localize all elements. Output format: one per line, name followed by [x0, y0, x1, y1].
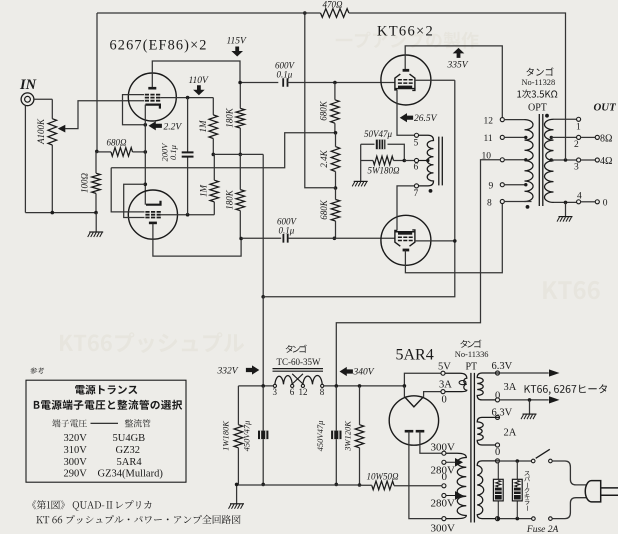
resistor 1M upper	[209, 115, 218, 139]
svg-text:5AR4: 5AR4	[117, 457, 143, 468]
label 280V bottom	[431, 498, 456, 510]
junction dot V4 screen	[453, 239, 457, 243]
tube V5 plate left	[405, 430, 414, 433]
svg-text:8: 8	[320, 387, 325, 397]
label No-11336	[455, 350, 489, 359]
winding 6.3V first	[477, 373, 499, 400]
wire 180K upper bottom lead	[239, 128, 241, 154]
resistor 10W50ohm	[372, 481, 394, 490]
label pin 6	[414, 163, 419, 173]
terminal choke 8	[321, 384, 324, 387]
junction dot 100 ohm-ground bus	[94, 211, 98, 215]
svg-text:1: 1	[576, 122, 581, 132]
caption line 2	[36, 515, 240, 524]
wire divider tap to V2 grid	[111, 133, 336, 168]
label 8 ohm	[600, 133, 612, 144]
wire filament left leg	[403, 386, 405, 397]
wire heater top	[499, 372, 549, 374]
label 332V	[217, 367, 239, 377]
pot wiper arrow	[58, 125, 66, 133]
junction dot bias-pin6	[403, 159, 407, 163]
wire coupling cap vertical	[187, 98, 189, 215]
wire pin4 to 0	[580, 201, 595, 203]
tube V1 plate	[148, 87, 156, 90]
svg-text:180K: 180K	[225, 107, 235, 128]
svg-text:12: 12	[299, 387, 308, 397]
resistor 2.4K	[331, 147, 340, 172]
label pin 12	[484, 117, 494, 127]
OPT secondary coil	[545, 119, 554, 202]
info table box	[26, 380, 186, 482]
junction dot V1 plate node	[238, 81, 242, 85]
wire pin2 to 8ohm	[580, 136, 595, 138]
svg-text:0.1μ: 0.1μ	[279, 226, 295, 236]
wire cathode vertical V1-V2	[144, 105, 146, 205]
junction dot secondary tap2	[550, 136, 553, 139]
decorative bleed-through (not labelled further)	[60, 32, 600, 353]
label 0 HV	[442, 471, 448, 483]
svg-text:5AR4: 5AR4	[396, 347, 434, 364]
label IN	[19, 77, 37, 93]
wire V3 plate to OPT pin12	[405, 46, 502, 118]
terminal OPT pin3	[577, 158, 581, 162]
svg-text:TC-60-35W: TC-60-35W	[277, 357, 321, 367]
junction dot heater ground	[528, 398, 532, 402]
svg-text:332V: 332V	[217, 367, 239, 377]
cathode winding coil	[418, 135, 433, 186]
junction dot spark killer 2 bottom	[516, 517, 520, 521]
label 100 ohm	[80, 173, 90, 194]
svg-text:3: 3	[574, 163, 579, 173]
cathode winding polarity dot	[429, 189, 433, 193]
svg-text:8Ω: 8Ω	[600, 133, 612, 144]
resistor 180K lower	[236, 190, 245, 211]
label 600V 0.1u lower	[277, 217, 298, 236]
wire screen node to KT66 screens	[263, 80, 455, 297]
wire pin9 to coil	[504, 184, 525, 186]
terminal pin5	[414, 133, 418, 137]
spark killer RC branch 1	[493, 463, 503, 519]
ground symbol bias	[352, 181, 368, 186]
svg-text:2A: 2A	[504, 427, 517, 438]
tap arrow 280V top	[446, 459, 462, 466]
arrow 340V	[340, 367, 353, 376]
svg-text:3A: 3A	[504, 382, 517, 393]
label pin 2	[574, 140, 579, 150]
junction dot spark killer 2 top	[516, 459, 520, 463]
junction dot V2 plate node	[239, 237, 243, 241]
resistor 680K lower	[331, 200, 340, 222]
arrow 2.2V	[149, 121, 162, 130]
terminal OPT pin11	[500, 135, 504, 139]
junction dot V1 g3-cathode	[144, 123, 148, 127]
wire filament right leg	[424, 392, 442, 397]
wire jack ground drop	[24, 105, 26, 212]
resistor 1M lower	[210, 180, 219, 202]
wire screen supply drop	[262, 297, 264, 386]
wire 2.4K leads	[335, 133, 337, 188]
capacitor 450V47u second	[331, 431, 341, 440]
wire 180K upper top lead	[239, 83, 241, 109]
svg-text:5V: 5V	[438, 362, 451, 373]
wire secondary bottom to pin4	[554, 201, 577, 203]
label pin 1	[576, 122, 581, 132]
wire NFB divider branch	[305, 13, 336, 188]
ground symbol heater	[521, 414, 537, 419]
label 470 ohm	[323, 0, 344, 9]
svg-text:7: 7	[414, 189, 419, 199]
svg-text:5W180Ω: 5W180Ω	[368, 166, 400, 176]
svg-text:50V47μ: 50V47μ	[364, 129, 392, 139]
wire B+ riser to 5V winding	[404, 373, 441, 386]
wire bias cap branch	[361, 144, 405, 160]
svg-text:A100K: A100K	[36, 118, 46, 145]
label 5V	[438, 362, 451, 373]
wire V2 plate to cap	[241, 237, 281, 239]
label 1ji 3.5Kohm	[517, 90, 557, 99]
svg-text:0: 0	[495, 447, 500, 458]
ground symbol psu	[229, 504, 245, 509]
wire bias network left	[360, 144, 362, 160]
wire KT66 lower grid	[288, 237, 395, 239]
fuse F 2A	[532, 517, 553, 521]
label 300V bottom	[431, 523, 456, 534]
table title B dengen	[34, 400, 182, 410]
junction dot 180K node	[239, 153, 243, 157]
wire V4 cathode to pin7	[397, 186, 415, 231]
junction dot primary tap9	[524, 183, 527, 186]
caption line 1	[32, 500, 151, 511]
wire V2 grid from divider	[111, 168, 144, 212]
label 340V	[353, 368, 375, 378]
wire V4 plate to OPT pin8	[405, 203, 502, 273]
label 50V47u	[364, 129, 392, 139]
svg-text:1W180K: 1W180K	[221, 420, 231, 451]
terminal HV 0	[442, 484, 446, 488]
label tango PT	[460, 340, 481, 348]
svg-text:1M: 1M	[198, 120, 208, 133]
arrowhead heater bottom	[549, 396, 560, 403]
wire 680K upper leads	[334, 83, 336, 133]
resistor 180K upper	[236, 108, 245, 128]
svg-text:4Ω: 4Ω	[600, 156, 612, 167]
wire 680 ohm right lead	[133, 151, 146, 153]
svg-text:IN: IN	[19, 77, 37, 93]
wire 1M upper top lead	[212, 98, 214, 115]
wire 1W180K bottom	[237, 448, 239, 485]
wire 100 ohm bottom lead	[95, 193, 97, 212]
wire V1 grid box	[123, 95, 146, 125]
cathode winding core	[439, 137, 443, 186]
resistor 100 ohm	[92, 173, 101, 193]
junction dot screen node	[261, 295, 265, 299]
wire B+ pin10 to rectifier	[336, 160, 500, 386]
svg-text:KT66×2: KT66×2	[377, 24, 434, 40]
wire primary top to switch	[499, 460, 531, 462]
table row 320V	[64, 433, 146, 444]
label 450V47u second	[315, 421, 325, 452]
junction dot primary tap10	[524, 158, 527, 161]
svg-text:2: 2	[574, 140, 579, 150]
terminal 5V 0	[441, 390, 445, 394]
terminal 4 ohm	[595, 158, 599, 162]
wire ground bus	[237, 484, 372, 503]
table header seiryukan	[125, 419, 151, 427]
junction dot secondary ground	[564, 201, 568, 205]
terminal pin6	[414, 158, 418, 162]
wire NFB top bus	[97, 12, 321, 14]
choke CH coils	[275, 376, 322, 385]
svg-text:6.3V: 6.3V	[492, 407, 513, 418]
wire secondary ground drop	[565, 202, 567, 216]
winding HV	[446, 453, 467, 518]
svg-text:0: 0	[442, 471, 448, 483]
label pin 5	[414, 139, 419, 149]
svg-text:11: 11	[484, 134, 493, 144]
label choke pin 6	[290, 387, 295, 397]
arrow 115V	[231, 47, 243, 57]
wire bias to pin6	[404, 160, 415, 162]
junction dot 680K top	[333, 81, 337, 85]
table header tanshi denatsu	[52, 419, 87, 427]
ground symbol input	[88, 232, 104, 237]
junction dot 680K-V2 coupling	[333, 237, 337, 241]
label 280V top	[431, 464, 456, 476]
terminal choke 12	[301, 384, 304, 387]
label pin 9	[489, 182, 494, 192]
label pin 3	[574, 163, 579, 173]
tube V2 plate	[149, 222, 157, 225]
cathode winding tap	[418, 159, 429, 162]
OPT primary coil	[525, 120, 534, 202]
svg-text:No-11336: No-11336	[455, 350, 489, 359]
wire 680 ohm left lead	[97, 151, 111, 153]
svg-text:450V47μ: 450V47μ	[315, 421, 325, 452]
junction dot bleeder top	[358, 384, 362, 388]
wire pot wiper to grid	[65, 101, 144, 129]
resistor 3W120K	[355, 425, 364, 448]
arrow 110V	[193, 85, 205, 95]
svg-text:310V: 310V	[64, 445, 88, 456]
wire 1W180K lead	[237, 386, 239, 425]
label 10W50ohm	[367, 472, 399, 482]
label tango choke	[286, 345, 307, 353]
svg-text:115V: 115V	[227, 37, 248, 47]
terminal OPT pin8	[500, 199, 504, 203]
tube V4 KT66 lower	[381, 215, 431, 265]
wire CT bus	[394, 485, 442, 487]
table header dash	[91, 422, 119, 424]
tube V5 plate right	[416, 430, 425, 433]
svg-text:3: 3	[273, 387, 278, 397]
terminal 6.3V-2 bottom	[495, 443, 499, 447]
svg-text:5: 5	[414, 139, 419, 149]
label 115V	[227, 37, 248, 47]
switch SW	[531, 449, 552, 463]
table row 310V	[64, 445, 141, 456]
wire input ground bus	[25, 212, 96, 214]
label 110V	[189, 76, 210, 86]
svg-text:PT: PT	[466, 362, 478, 373]
junction dot 332V cap	[261, 384, 265, 388]
terminal 6.3V-1 bottom	[495, 398, 499, 402]
tube V5 filament	[404, 397, 423, 407]
label KT66x2	[377, 24, 434, 40]
svg-text:GZ34(Mullard): GZ34(Mullard)	[98, 469, 164, 480]
wire plate left to 300V bottom	[409, 431, 442, 518]
PT core	[471, 373, 475, 523]
wire jack to volume pot	[34, 98, 52, 100]
wire filter cap1 leads	[262, 386, 264, 485]
wire ground bus drop	[95, 213, 97, 232]
label 0 5V	[442, 395, 447, 406]
wire 680K lower leads	[335, 188, 337, 238]
wire screen node vertical	[262, 154, 264, 296]
terminal OPT pin10	[500, 158, 504, 162]
label No-11328	[522, 78, 556, 87]
label 2.2V	[164, 123, 183, 133]
wire heater ground drop	[529, 400, 531, 414]
svg-text:6.3V: 6.3V	[492, 361, 513, 372]
terminal primary top	[495, 459, 499, 463]
winding 6.3V second	[477, 417, 499, 445]
label 1W180K	[221, 420, 231, 451]
label Fuse 2A	[526, 525, 559, 534]
terminal 8 ohm	[595, 135, 599, 139]
junction dot 1M-1M node	[212, 153, 216, 157]
tap arrow 280V bottom	[446, 492, 462, 499]
wire 332V node	[238, 385, 273, 387]
wire 340V node	[324, 385, 405, 387]
svg-text:320V: 320V	[64, 433, 88, 444]
wire V1 plate coupling	[240, 82, 278, 84]
wire fuse to plug	[552, 498, 586, 519]
svg-text:680K: 680K	[319, 100, 329, 121]
capacitor 450V47u first	[258, 431, 268, 440]
wire tap to pin3	[551, 159, 577, 161]
wire V2 grid box	[124, 184, 146, 217]
label pin 10	[482, 151, 492, 161]
potentiometer A100K	[48, 119, 57, 145]
label 5AR4	[396, 347, 434, 364]
wire 1M upper bottom lead	[212, 139, 214, 155]
arrow 335V	[453, 48, 465, 58]
junction dot bleeder bottom	[358, 483, 362, 487]
winding 5V	[445, 373, 467, 391]
wire V4 screen	[415, 240, 455, 242]
junction dot 680 ohm-cathode	[144, 150, 148, 154]
label sankou	[30, 368, 45, 375]
svg-text:2.4K: 2.4K	[319, 149, 329, 167]
label 6267(EF86)x2	[110, 38, 208, 54]
svg-text:12: 12	[484, 117, 494, 127]
wire pin8 to coil	[504, 201, 532, 203]
junction dot spark killer 1 bottom	[497, 517, 501, 521]
junction dot 2.4K-680K	[334, 186, 338, 190]
wire V2 screen to right	[161, 214, 215, 216]
label A100K	[36, 118, 46, 145]
label 5W180ohm	[368, 166, 400, 176]
svg-text:3A: 3A	[439, 379, 452, 390]
wire secondary top to pin1	[554, 118, 577, 120]
terminal choke 6	[291, 384, 294, 387]
tube V3 KT66 upper	[381, 55, 431, 105]
svg-text:6: 6	[290, 387, 295, 397]
label 4 ohm	[600, 156, 612, 167]
wire pin3 to 4ohm	[580, 159, 595, 161]
wire pot bottom lead	[51, 145, 53, 213]
terminal 6.3V-1 top	[495, 371, 499, 375]
svg-text:0: 0	[603, 199, 608, 209]
capacitor 0.1u 600V lower	[283, 234, 287, 243]
tube V1 grids	[145, 95, 160, 101]
label 1M upper	[198, 120, 208, 133]
terminal HV 280V bottom	[442, 493, 446, 497]
ground symbol secondary	[557, 217, 573, 222]
svg-text:3W120K: 3W120K	[343, 420, 353, 452]
svg-text:1M: 1M	[199, 185, 209, 198]
label out 0	[603, 199, 608, 209]
label 300V top	[431, 442, 456, 454]
svg-text:10W50Ω: 10W50Ω	[367, 472, 399, 482]
svg-text:6267(EF86)×2: 6267(EF86)×2	[110, 38, 208, 54]
svg-text:290V: 290V	[64, 469, 88, 480]
svg-text:0: 0	[442, 395, 447, 406]
choke core	[273, 369, 324, 372]
wire 1M lower leads	[213, 154, 215, 214]
junction dot ground bus left	[235, 483, 239, 487]
label OUT	[594, 102, 617, 114]
wire V1 screen to 1M	[160, 97, 213, 99]
svg-text:No-11328: No-11328	[522, 78, 556, 87]
tube V1 cathode	[145, 105, 160, 109]
OPT core	[539, 114, 543, 206]
svg-text:100Ω: 100Ω	[80, 173, 90, 194]
terminal OPT pin1	[577, 117, 581, 121]
junction dot V2 cathode	[144, 183, 148, 187]
wire bias resistor leads	[361, 160, 405, 162]
svg-text:450V47μ: 450V47μ	[242, 421, 252, 452]
svg-text:4: 4	[577, 192, 582, 202]
junction dot pot-ground bus	[51, 211, 55, 215]
junction dot coupling cap bottom	[186, 213, 190, 217]
wire V3 cathode to pin5	[397, 90, 415, 135]
label 680K upper	[319, 100, 329, 121]
svg-text:26.5V: 26.5V	[414, 114, 438, 124]
wire 100 ohm top lead	[95, 151, 97, 173]
wire plate right to 300V top	[420, 431, 442, 453]
label 450V47u first	[242, 421, 252, 452]
wire V3 screen	[415, 79, 455, 81]
terminal out 0	[595, 200, 599, 204]
label 6.3V first	[492, 361, 513, 372]
label choke pin 3	[273, 387, 278, 397]
winding PT primary	[477, 461, 499, 519]
label spark killer	[524, 471, 530, 511]
svg-text:OPT: OPT	[528, 103, 547, 114]
terminal 5V	[441, 371, 445, 375]
svg-text:300V: 300V	[431, 442, 456, 454]
label 680 ohm	[107, 138, 128, 148]
svg-text:Fuse 2A: Fuse 2A	[526, 525, 559, 534]
tube V5 5AR4 envelope	[389, 396, 438, 445]
label 335V	[447, 61, 469, 71]
svg-text:0.1μ: 0.1μ	[277, 70, 293, 80]
tube V2 cathode	[146, 201, 161, 205]
svg-text:470Ω: 470Ω	[323, 0, 344, 9]
terminal choke 3	[273, 384, 276, 387]
junction dot rectifier output	[403, 384, 407, 388]
